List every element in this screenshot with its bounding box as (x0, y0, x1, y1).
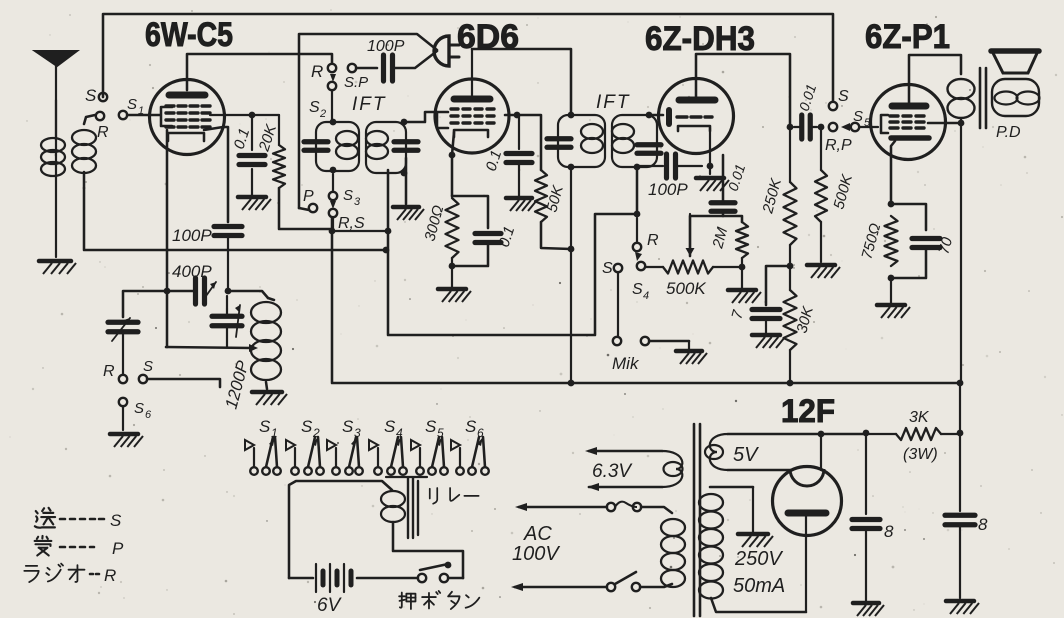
winding PT HV (710, 486, 753, 489)
earphone (434, 36, 449, 66)
push button (418, 574, 426, 582)
tube U2 grids (451, 107, 458, 110)
svg-text:250V: 250V (734, 548, 783, 570)
tube U4 6Z-P1 envelope (871, 85, 946, 160)
svg-text:S: S (632, 281, 643, 298)
svg-text:IFT: IFT (352, 94, 387, 115)
svg-text:R: R (104, 566, 116, 585)
wire grid2 line (210, 114, 279, 116)
ground U3 cathode (696, 176, 724, 181)
capacitor IFT1 primary trim (304, 139, 328, 144)
wire 100P to 400P node (227, 236, 229, 290)
capacitor 8 first (863, 430, 870, 437)
transformer IFT2 secondary box (612, 115, 657, 167)
svg-text:S: S (85, 86, 97, 105)
svg-text:R: R (97, 124, 109, 141)
resistor 3K filter (869, 433, 896, 435)
capacitor IFT2 primary trim (547, 136, 571, 141)
resistor 2M (723, 216, 742, 222)
capacitor 0.01 output coupling (799, 115, 804, 139)
tube U1 cathode (168, 133, 204, 141)
svg-text:S: S (838, 88, 849, 105)
svg-text:100P: 100P (648, 180, 688, 199)
ground antenna (39, 259, 71, 264)
transformer IFT1 secondary box (366, 122, 406, 173)
svg-text:S: S (301, 417, 313, 436)
svg-text:R: R (311, 62, 323, 81)
svg-text:6W-C5: 6W-C5 (145, 16, 233, 54)
contact P (309, 204, 317, 212)
transformer IFT1 primary coil (336, 131, 358, 146)
tube U4 grid bracket (881, 115, 888, 133)
svg-text:12F: 12F (781, 393, 835, 429)
wire top send bus (103, 14, 833, 101)
wire AVC bus (84, 188, 385, 250)
transformer IFT2 primary coil (581, 124, 603, 139)
ground S6 (110, 432, 138, 437)
svg-text:S: S (465, 417, 477, 436)
svg-text:6D6: 6D6 (457, 18, 519, 56)
capacitor 7 decoupling (766, 266, 790, 305)
capacitor 8 second (945, 513, 975, 518)
pot wiper (689, 214, 691, 252)
svg-text:R: R (647, 232, 659, 249)
tube U5 filament (790, 469, 824, 486)
node 250K bottom (787, 263, 794, 270)
svg-text:1: 1 (271, 426, 278, 440)
wire 5V to filament (818, 431, 825, 438)
svg-text:2: 2 (319, 108, 326, 120)
transformer PT core (693, 424, 696, 616)
ground 8 second (946, 599, 974, 604)
wire 20K to R.S line (279, 188, 332, 229)
svg-text:50mA: 50mA (733, 575, 785, 597)
ground capacitor 7 (765, 319, 767, 335)
svg-text:6: 6 (477, 426, 484, 440)
svg-text:6: 6 (145, 409, 152, 421)
resistor 250K plate load (787, 124, 794, 131)
wire IFT2 secondary bottom (636, 167, 639, 214)
tube U1 plate (169, 92, 205, 99)
tube U3 diode plate (666, 110, 672, 124)
coil L1 primary (41, 138, 65, 152)
node cathode top (888, 201, 895, 208)
contact R detector (636, 218, 638, 242)
resistor 50K screen (535, 170, 547, 222)
svg-text:6V: 6V (317, 595, 343, 616)
wire B+ bus (332, 218, 960, 383)
svg-text:Mik: Mik (612, 354, 640, 373)
svg-text:R,P: R,P (825, 137, 852, 154)
tube U5 12F envelope (773, 467, 842, 536)
tube U1 grids (166, 104, 174, 107)
tube U4 cathode (891, 135, 929, 141)
svg-text:S: S (853, 108, 863, 125)
resistor 500K grid leak (820, 127, 822, 170)
winding 5V (728, 433, 865, 436)
relay label (430, 488, 437, 504)
svg-text:S: S (384, 417, 396, 436)
fuse (519, 506, 607, 509)
switch power (607, 583, 615, 591)
svg-text:6Z-DH3: 6Z-DH3 (645, 20, 755, 58)
wire detector bus (388, 170, 637, 335)
svg-text:100V: 100V (512, 543, 560, 565)
transformer IFT1 primary box (316, 122, 359, 171)
svg-text:S: S (143, 358, 153, 375)
capacitor IFT2 secondary trim (637, 142, 661, 147)
node IFT1 corners (330, 119, 337, 126)
ground Mik (688, 341, 690, 351)
capacitor 0.1 cathode (452, 196, 488, 228)
contact S send bypass (829, 102, 837, 110)
winding 6.3V (589, 450, 662, 453)
contact S osc (139, 375, 147, 383)
capacitor 100P osc (214, 224, 242, 229)
ground 0.1 (251, 169, 253, 197)
svg-text:AC: AC (523, 523, 552, 545)
wire osc node to coil (228, 291, 268, 298)
svg-text:S: S (127, 96, 137, 113)
ground 0.1 screen (518, 165, 520, 198)
contact S4 volume (637, 262, 645, 270)
ground 750ohm (890, 278, 892, 305)
resistor 20K (278, 115, 280, 145)
svg-text:8: 8 (884, 522, 894, 541)
svg-text:S.P: S.P (344, 74, 368, 91)
ground HV top (752, 487, 754, 534)
svg-text:500K: 500K (666, 279, 706, 298)
wire coil tap line (166, 347, 252, 348)
contact S top-left (99, 93, 107, 101)
tube U4 plate (892, 103, 926, 110)
tube U4 screen wire (928, 122, 961, 125)
ground 8 first (853, 601, 879, 606)
wire B+ right riser (960, 123, 962, 383)
wire IFT2 sec top to diode (649, 114, 663, 117)
node grid leak (818, 124, 825, 131)
wire 6W-C5 plate to R contact (187, 54, 332, 90)
capacitor 100P monitor (381, 55, 386, 81)
svg-text:5: 5 (437, 426, 444, 440)
speaker voice coil P.D (992, 79, 1039, 116)
legend receive P (35, 536, 52, 556)
capacitor 400P (193, 278, 198, 304)
svg-text:S: S (343, 187, 353, 204)
wire monitor bus (299, 34, 437, 208)
svg-text:(3W): (3W) (903, 446, 938, 463)
svg-text:2: 2 (312, 426, 320, 440)
capacitor variable 1200P (212, 314, 242, 319)
tube U2 plate (454, 96, 490, 103)
transformer IFT2 primary box (558, 115, 605, 167)
svg-text:IFT: IFT (596, 92, 631, 113)
contact S.P (348, 64, 356, 72)
svg-text:S: S (602, 260, 613, 277)
capacitor 100P diode (637, 165, 663, 167)
svg-text:4: 4 (396, 426, 403, 440)
coil L1 secondary (72, 130, 96, 145)
wire 6D6 plate to IFT2 (472, 49, 571, 115)
svg-text:100P: 100P (172, 226, 212, 245)
relay core (407, 478, 409, 538)
antenna (35, 51, 77, 66)
svg-text:S: S (342, 417, 354, 436)
svg-text:S: S (309, 99, 320, 116)
svg-text:5V: 5V (733, 444, 759, 466)
tube U2 grid bracket (437, 112, 448, 128)
resistor 750ohm cathode (885, 216, 898, 266)
transformer IFT1 secondary coil (366, 131, 388, 146)
tube U3 plate (679, 97, 715, 104)
tube U2 6D6 envelope (435, 79, 509, 153)
contact S mic (614, 264, 622, 272)
contact S6 (119, 375, 127, 383)
svg-text:3K: 3K (909, 409, 930, 426)
ground 6D6 cathode (451, 258, 453, 289)
node osc junction (225, 288, 232, 295)
ground IFT1 (393, 205, 419, 210)
tube U3 cathode (678, 126, 710, 131)
capacitor variable tuning left (123, 291, 166, 317)
node IFT2 corners (568, 112, 575, 119)
svg-text:400P: 400P (172, 262, 212, 281)
svg-text:6Z-P1: 6Z-P1 (865, 18, 950, 56)
capacitor 0.1 grid bypass (251, 115, 253, 150)
winding PT primary (661, 519, 685, 536)
legend radio R (24, 566, 38, 582)
contact S1 input (96, 112, 104, 120)
svg-text:P: P (112, 539, 124, 558)
transformer OPT primary coil (948, 79, 975, 99)
svg-text:P: P (303, 188, 314, 205)
node pot right (739, 264, 746, 271)
svg-text:100P: 100P (367, 38, 405, 55)
capacitor 0.1 screen (518, 115, 520, 149)
svg-text:S: S (134, 400, 144, 417)
tube U4 grids (890, 114, 898, 117)
svg-text:S: S (110, 511, 122, 530)
tube U3 grid (677, 115, 687, 118)
svg-text:R: R (103, 363, 115, 380)
svg-text:4: 4 (643, 290, 649, 302)
capacitor IFT1 secondary trim (394, 139, 418, 144)
ground 500K (807, 263, 835, 268)
transformer OPT core (979, 68, 982, 128)
svg-text:6.3V: 6.3V (592, 461, 633, 482)
svg-text:P.D: P.D (996, 124, 1021, 141)
battery 6V (289, 577, 313, 580)
wire IFT2 primary bottom to B+ (570, 167, 572, 249)
svg-text:8: 8 (978, 515, 988, 534)
capacitor 70 cathode (891, 204, 926, 230)
wire 400P left leg (166, 290, 195, 293)
wire 50K to B+ riser (541, 222, 571, 249)
svg-text:S: S (425, 417, 437, 436)
switch bank S1-S6 (250, 467, 258, 475)
svg-text:3: 3 (354, 196, 361, 208)
capacitor 0.01 coupling (711, 200, 735, 205)
coil L2 oscillator (268, 298, 274, 300)
resistor 300ohm cathode (446, 198, 459, 258)
wire S3 down (332, 174, 334, 192)
relay coil (289, 481, 392, 578)
ground coil L2 (252, 390, 282, 395)
contact S5 (829, 123, 837, 131)
tube U2 cathode (454, 130, 488, 137)
legend send S (35, 508, 55, 528)
svg-text:S: S (259, 417, 271, 436)
contact S3 (329, 192, 337, 200)
contact R-S2 plate switch (328, 64, 336, 72)
tube U1 6W-C5 envelope (150, 80, 225, 155)
tube U3 6Z-DH3 envelope (659, 79, 734, 154)
microphone jack Mik (613, 337, 621, 345)
tube U1 grid cap bracket (161, 107, 172, 126)
wire 6D6 screen line (505, 115, 541, 170)
resistor 30K decoupling (789, 266, 791, 290)
svg-text:1: 1 (138, 105, 144, 117)
ground 2M (741, 267, 743, 290)
wire IFT1 secondary to ground (405, 158, 408, 204)
tube U5 plate (788, 510, 826, 517)
svg-text:R,S: R,S (338, 215, 365, 232)
transformer IFT2 secondary coil (612, 124, 634, 139)
resistor 500K volume pot (645, 266, 663, 268)
speaker horn (992, 51, 1038, 73)
node R.S junction (329, 228, 336, 235)
svg-text:3: 3 (354, 426, 361, 440)
wire IFT1 sec top to 6D6 grid (404, 112, 437, 122)
